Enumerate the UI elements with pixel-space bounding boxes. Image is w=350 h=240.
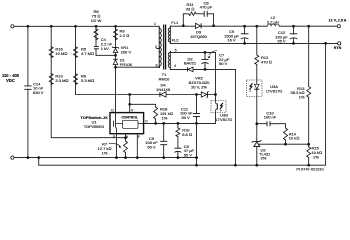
svg-text:5: 5 [175,48,177,52]
svg-text:50 V: 50 V [219,61,228,66]
svg-text:2.2 Ω: 2.2 Ω [120,33,130,38]
svg-text:3.3 MΩ: 3.3 MΩ [81,78,94,83]
svg-text:1 kV: 1 kV [101,46,109,51]
svg-text:VDC: VDC [6,78,15,83]
svg-text:4.7 MΩ: 4.7 MΩ [81,51,94,56]
svg-text:2%: 2% [261,155,267,160]
svg-text:FL1: FL1 [171,20,179,25]
svg-text:50 V: 50 V [147,145,156,150]
svg-text:1/2 W: 1/2 W [91,18,102,23]
svg-text:2: 2 [155,45,157,49]
svg-text:D: D [111,108,114,112]
svg-text:1%: 1% [102,150,108,155]
svg-text:2.2 µH: 2.2 µH [267,19,279,24]
svg-text:1: 1 [154,22,156,26]
svg-text:TOP265EG: TOP265EG [84,124,105,129]
svg-text:20 V, 2%: 20 V, 2% [191,84,207,89]
svg-text:10 kΩ: 10 kΩ [289,136,300,141]
svg-text:V: V [131,108,134,112]
svg-text:630 V: 630 V [33,90,44,95]
svg-text:1%: 1% [162,116,168,121]
svg-text:25 V: 25 V [277,39,286,44]
svg-text:10 MΩ: 10 MΩ [55,51,67,56]
svg-text:LTV817D: LTV817D [216,117,233,122]
svg-text:F: F [138,135,140,139]
svg-text:200 V: 200 V [121,50,132,55]
svg-text:470 Ω: 470 Ω [261,60,272,65]
svg-text:50 V: 50 V [182,115,191,120]
svg-text:100 nF: 100 nF [264,115,277,120]
svg-text:6.8 Ω: 6.8 Ω [182,132,192,137]
svg-text:1%: 1% [299,95,305,100]
svg-text:15TQ060: 15TQ060 [190,34,207,39]
svg-text:RM10: RM10 [159,77,170,82]
svg-text:X: X [126,135,129,139]
svg-text:33 Ω: 33 Ω [186,6,195,11]
svg-text:1N4148: 1N4148 [156,87,171,92]
svg-text:3: 3 [156,64,158,68]
svg-text:1%: 1% [313,154,319,159]
svg-text:12 V, 2.5 A: 12 V, 2.5 A [329,19,347,23]
svg-text:4: 4 [174,64,176,68]
svg-text:BAV21: BAV21 [184,61,197,66]
svg-text:S: S [113,135,116,139]
svg-text:RTN: RTN [334,46,342,50]
svg-text:FR106: FR106 [120,62,133,67]
svg-text:PI-5747-021010: PI-5747-021010 [296,168,323,172]
svg-text:16 V: 16 V [227,38,236,43]
svg-text:CONTROL: CONTROL [121,115,138,119]
svg-text:FL2: FL2 [172,38,180,43]
svg-text:LTV817D: LTV817D [266,88,283,93]
svg-text:470 pF: 470 pF [200,5,213,10]
svg-text:50 V: 50 V [184,152,193,157]
svg-text:3.3 MΩ: 3.3 MΩ [55,78,68,83]
